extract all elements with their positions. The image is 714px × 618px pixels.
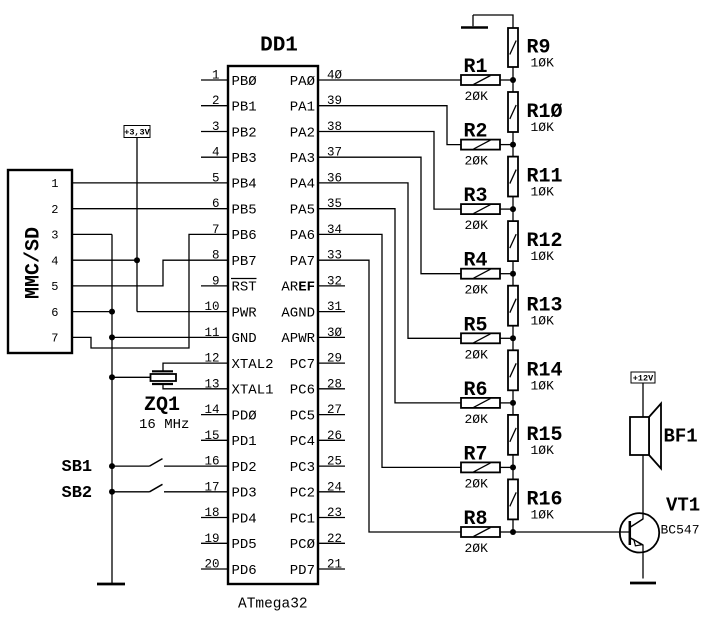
pin 2 stub <box>201 105 228 107</box>
speaker BF1 label <box>664 426 698 448</box>
wire ladder segment 5 <box>512 326 514 351</box>
switch SB2 blade <box>150 484 163 492</box>
svg-text:AGND: AGND <box>281 305 315 321</box>
resistor R5 label <box>464 314 488 337</box>
wire PA3 to R4 <box>318 157 461 274</box>
pin 32 label <box>281 280 315 296</box>
wire +3.3V vertical <box>136 138 138 312</box>
pin 28 stub <box>318 388 345 390</box>
svg-text:13: 13 <box>204 377 219 391</box>
wire GND pin11 to ground rail <box>112 336 228 338</box>
pin 18 label PD4 <box>232 511 257 527</box>
wire MMC6 to ground rail <box>72 311 112 313</box>
transistor VT1 emitter arrow <box>634 540 642 546</box>
wire ladder segment 3 <box>512 197 514 222</box>
svg-text:1ØK: 1ØK <box>531 249 555 264</box>
wire crystal case to ground <box>112 376 151 378</box>
pin 29 number <box>327 352 342 366</box>
pin 7 number <box>212 223 220 237</box>
svg-text:PDØ: PDØ <box>232 408 257 424</box>
svg-text:PA6: PA6 <box>290 228 315 244</box>
svg-text:VT1: VT1 <box>666 495 700 517</box>
wire PA4 to R5 <box>318 183 461 338</box>
resistor R11 body <box>508 157 518 197</box>
svg-text:PA3: PA3 <box>290 151 315 167</box>
svg-text:+12V: +12V <box>633 374 654 384</box>
svg-text:19: 19 <box>204 532 219 546</box>
wire PA0 to R1 <box>318 79 461 81</box>
svg-text:R6: R6 <box>464 379 488 402</box>
switch SB2 label <box>62 484 93 503</box>
svg-text:PC5: PC5 <box>290 408 315 424</box>
svg-text:3: 3 <box>212 120 220 134</box>
pin 15 number <box>204 429 219 443</box>
pin 30 label <box>281 331 315 347</box>
svg-text:1ØK: 1ØK <box>531 378 555 393</box>
svg-text:R4: R4 <box>464 250 488 273</box>
pin 31 label <box>281 305 315 321</box>
svg-text:31: 31 <box>327 300 342 314</box>
resistor R12 slash <box>510 234 516 248</box>
pin 22 number <box>327 532 342 546</box>
svg-text:BF1: BF1 <box>664 426 698 448</box>
svg-text:3: 3 <box>51 229 58 243</box>
pin 9 number <box>212 274 220 288</box>
svg-text:PC2: PC2 <box>290 486 315 502</box>
wire R1 to ladder <box>500 79 513 81</box>
svg-text:20: 20 <box>204 558 219 572</box>
wire +12V to BF1 <box>642 383 644 417</box>
resistor R8 body <box>461 527 500 537</box>
connector X1 pin 5 number <box>51 280 58 294</box>
pin 16 label PD2 <box>232 460 257 476</box>
pin 33 label <box>290 254 315 270</box>
junction MMC6/ground <box>109 309 115 315</box>
svg-text:16 MHz: 16 MHz <box>139 417 189 433</box>
resistor R10 label <box>527 101 563 124</box>
wire ground rail vertical <box>111 234 113 584</box>
transistor VT1 base bar <box>629 521 632 545</box>
pin 22 label <box>290 537 315 553</box>
pin 16 number <box>204 455 219 469</box>
pin 29 stub <box>318 362 345 364</box>
pin 25 stub <box>318 465 345 467</box>
wire +3.3V to PWR pin10 <box>137 311 228 313</box>
svg-text:PD6: PD6 <box>232 563 257 579</box>
svg-text:GND: GND <box>232 331 257 347</box>
resistor R3 value 20K <box>465 218 489 233</box>
resistor R8 slash <box>474 528 491 537</box>
resistor R1 value 20K <box>465 89 489 104</box>
svg-text:PB5: PB5 <box>232 203 257 219</box>
pin 37 number <box>327 146 342 160</box>
pin 3 number <box>212 120 220 134</box>
pin 4 stub <box>201 156 228 158</box>
svg-text:PD4: PD4 <box>232 511 257 527</box>
svg-text:1ØK: 1ØK <box>531 443 555 458</box>
pin 5 label PB4 <box>232 177 257 193</box>
resistor R12 value 10K <box>531 249 555 264</box>
resistor R9 body <box>508 28 518 67</box>
pin 1 stub <box>201 79 228 81</box>
pin 24 stub <box>318 491 345 493</box>
wire ladder segment 6 <box>512 390 514 415</box>
svg-text:AREF: AREF <box>281 280 315 296</box>
pin 18 number <box>204 506 219 520</box>
resistor R3 body <box>461 204 500 214</box>
junction node 1 <box>510 77 516 83</box>
svg-text:R7: R7 <box>464 443 488 466</box>
resistor R16 value 10K <box>531 507 555 522</box>
svg-text:PA5: PA5 <box>290 203 315 219</box>
svg-text:23: 23 <box>327 506 342 520</box>
pin 11 label GND <box>232 331 257 347</box>
wire MMC1 to PB4 <box>72 182 228 184</box>
pin 9 stub <box>201 285 228 287</box>
svg-text:R1: R1 <box>464 56 488 79</box>
resistor R9 slash <box>510 41 516 55</box>
wire PA2 to R3 <box>318 132 461 210</box>
svg-text:26: 26 <box>327 429 342 443</box>
svg-text:2ØK: 2ØK <box>465 89 489 104</box>
wire VT1 collector to BF1 <box>642 455 644 519</box>
svg-text:3Ø: 3Ø <box>327 326 343 340</box>
svg-text:5: 5 <box>212 171 220 185</box>
wire PA5 to R6 <box>318 209 461 403</box>
resistor R2 slash <box>474 140 491 149</box>
junction node 3 <box>510 206 516 212</box>
wire MMC7 to PB6 <box>72 234 228 348</box>
pin 5 number <box>212 171 220 185</box>
pin 40 number <box>327 69 343 83</box>
svg-text:R2: R2 <box>464 121 488 144</box>
svg-text:28: 28 <box>327 377 342 391</box>
pin 14 stub <box>201 414 228 416</box>
svg-text:6: 6 <box>212 197 220 211</box>
svg-text:1ØK: 1ØK <box>531 314 555 329</box>
svg-text:27: 27 <box>327 403 342 417</box>
pin 28 label <box>290 383 315 399</box>
wire PA6 to R7 <box>318 234 461 467</box>
resistor R15 body <box>508 415 518 455</box>
svg-text:11: 11 <box>204 326 219 340</box>
svg-text:2ØK: 2ØK <box>465 283 489 298</box>
resistor R10 value 10K <box>531 120 555 135</box>
pin 32 stub <box>318 285 345 287</box>
svg-text:14: 14 <box>204 403 219 417</box>
svg-text:15: 15 <box>204 429 219 443</box>
svg-text:PB6: PB6 <box>232 228 257 244</box>
junction node 4 <box>510 271 516 277</box>
svg-text:29: 29 <box>327 352 342 366</box>
svg-text:PD5: PD5 <box>232 537 257 553</box>
resistor R7 slash <box>474 463 491 472</box>
speaker BF1 cone <box>649 404 661 469</box>
junction SB2 ground <box>109 489 115 495</box>
pin 1 label PB&#216; <box>232 74 257 90</box>
svg-text:PC3: PC3 <box>290 460 315 476</box>
wire ladder segment 7 <box>512 455 514 480</box>
svg-text:1ØK: 1ØK <box>531 56 555 71</box>
pin 21 number <box>327 558 342 572</box>
pin 26 label <box>290 434 315 450</box>
wire MMC4 to +3.3V rail <box>72 259 137 261</box>
resistor R7 label <box>464 443 488 466</box>
svg-text:1ØK: 1ØK <box>531 185 555 200</box>
pin 30 stub <box>318 336 345 338</box>
svg-text:PC7: PC7 <box>290 357 315 373</box>
pin 27 stub <box>318 414 345 416</box>
resistor R2 label <box>464 121 488 144</box>
svg-text:1: 1 <box>51 177 58 191</box>
wire ladder segment 2 <box>512 132 514 157</box>
transistor VT1 collector <box>630 519 643 528</box>
resistor R4 value 20K <box>465 283 489 298</box>
IC DD1 designator <box>260 35 298 58</box>
pin 8 label PB7 <box>232 254 257 270</box>
pin 19 number <box>204 532 219 546</box>
pin 9 label RST <box>232 280 257 296</box>
svg-text:PA4: PA4 <box>290 177 315 193</box>
svg-text:22: 22 <box>327 532 342 546</box>
pin 36 label <box>290 177 315 193</box>
svg-text:ATmega32: ATmega32 <box>238 597 308 613</box>
resistor R11 label <box>527 166 563 189</box>
svg-text:18: 18 <box>204 506 219 520</box>
pin 31 number <box>327 300 342 314</box>
svg-text:PAØ: PAØ <box>290 74 315 90</box>
svg-text:MMC/SD: MMC/SD <box>23 227 46 299</box>
pin 24 number <box>327 480 342 494</box>
svg-text:17: 17 <box>204 480 219 494</box>
resistor R14 value 10K <box>531 378 555 393</box>
resistor R11 value 10K <box>531 185 555 200</box>
wire R4 to ladder <box>500 273 513 275</box>
resistor R4 slash <box>474 269 491 278</box>
wire SB1 to PD2 <box>164 465 228 467</box>
svg-text:1ØK: 1ØK <box>531 507 555 522</box>
resistor R16 label <box>527 488 563 511</box>
resistor R8 label <box>464 508 488 531</box>
svg-text:PB7: PB7 <box>232 254 257 270</box>
svg-text:2ØK: 2ØK <box>465 347 489 362</box>
svg-text:R5: R5 <box>464 314 488 337</box>
resistor R15 label <box>527 424 563 447</box>
pin 23 stub <box>318 517 345 519</box>
wire VT1 emitter to ground <box>642 545 644 579</box>
supply +12V label <box>633 374 654 384</box>
svg-text:+3,3V: +3,3V <box>124 128 150 138</box>
svg-text:2ØK: 2ØK <box>465 218 489 233</box>
svg-text:4: 4 <box>51 254 58 268</box>
svg-text:PA2: PA2 <box>290 125 315 141</box>
resistor R13 value 10K <box>531 314 555 329</box>
svg-text:APWR: APWR <box>281 331 315 347</box>
resistor R6 slash <box>474 398 491 407</box>
pin 15 label PD1 <box>232 434 257 450</box>
wire R2 to ladder <box>500 144 513 146</box>
pin 39 number <box>327 94 342 108</box>
svg-text:PD7: PD7 <box>290 563 315 579</box>
ground symbol right <box>630 582 656 585</box>
pin 20 number <box>204 558 219 572</box>
pin 23 number <box>327 506 342 520</box>
pin 34 number <box>327 223 342 237</box>
pin 14 label PD&#216; <box>232 408 257 424</box>
svg-text:2: 2 <box>51 203 58 217</box>
pin 10 label PWR <box>232 305 258 321</box>
svg-text:PD2: PD2 <box>232 460 257 476</box>
resistor R1 body <box>461 75 500 85</box>
pin 35 number <box>327 197 342 211</box>
resistor R11 slash <box>510 170 516 184</box>
resistor R3 slash <box>474 205 491 214</box>
pin 30 number <box>327 326 343 340</box>
crystal ZQ1 value 16 MHz <box>139 417 189 433</box>
svg-text:RST: RST <box>232 280 257 296</box>
pin 19 label PD5 <box>232 537 257 553</box>
resistor R16 slash <box>510 492 516 506</box>
resistor R3 label <box>464 185 488 208</box>
wire SB1 left <box>112 465 150 467</box>
junction GND/ground rail <box>109 334 115 340</box>
resistor R5 slash <box>474 334 491 343</box>
resistor R13 body <box>508 286 518 326</box>
pin 38 number <box>327 120 342 134</box>
pin 1 number <box>212 69 220 83</box>
resistor R10 slash <box>510 105 516 119</box>
resistor R13 label <box>527 295 563 318</box>
pin 20 label PD6 <box>232 563 257 579</box>
svg-text:7: 7 <box>51 332 58 346</box>
resistor R2 body <box>461 140 500 150</box>
resistor R4 body <box>461 269 500 279</box>
svg-text:2ØK: 2ØK <box>465 412 489 427</box>
svg-text:XTAL1: XTAL1 <box>232 383 274 399</box>
svg-text:2ØK: 2ØK <box>465 154 489 169</box>
junction crystal ground <box>109 374 115 380</box>
pin 6 number <box>212 197 220 211</box>
svg-text:SB1: SB1 <box>62 458 93 477</box>
resistor R2 value 20K <box>465 154 489 169</box>
resistor R1 slash <box>474 76 491 85</box>
svg-text:PB4: PB4 <box>232 177 257 193</box>
supply +3.3V box <box>124 126 150 138</box>
wire R5 to ladder <box>500 337 513 339</box>
junction MMC4/+3.3V <box>134 257 140 263</box>
resistor R7 body <box>461 462 500 472</box>
pin 35 label <box>290 203 315 219</box>
pin 21 label <box>290 563 315 579</box>
pin 12 number <box>204 352 219 366</box>
svg-text:PC4: PC4 <box>290 434 315 450</box>
pin 3 label PB2 <box>232 125 257 141</box>
svg-text:PD3: PD3 <box>232 486 257 502</box>
pin 2 label PB1 <box>232 100 257 116</box>
svg-text:1: 1 <box>212 69 220 83</box>
pin 14 number <box>204 403 219 417</box>
pin 40 label <box>290 74 315 90</box>
svg-text:R8: R8 <box>464 508 488 531</box>
IC DD1 body <box>228 66 318 584</box>
junction node 5 <box>510 335 516 341</box>
svg-text:9: 9 <box>212 274 220 288</box>
pin 34 label <box>290 228 315 244</box>
connector X1 MMC/SD box <box>8 170 72 353</box>
switch SB1 blade <box>150 459 163 467</box>
svg-text:PB1: PB1 <box>232 100 257 116</box>
pin 27 label <box>290 408 315 424</box>
pin 2 number <box>212 94 220 108</box>
connector X1 label MMC/SD <box>23 227 46 299</box>
wire R7 to ladder <box>500 466 513 468</box>
svg-text:PB3: PB3 <box>232 151 257 167</box>
pin 26 number <box>327 429 342 443</box>
connector X1 pin 3 number <box>51 229 58 243</box>
wire R8 to ladder <box>500 531 513 533</box>
wire ladder segment 4 <box>512 261 514 286</box>
svg-text:24: 24 <box>327 480 342 494</box>
pin 10 number <box>204 300 219 314</box>
junction node 6 <box>510 400 516 406</box>
connector X1 pin 6 number <box>51 306 58 320</box>
wire SB2 left <box>112 491 150 493</box>
pin 29 label <box>290 357 315 373</box>
resistor R8 value 20K <box>465 541 489 556</box>
svg-text:4: 4 <box>212 146 220 160</box>
resistor R6 label <box>464 379 488 402</box>
ground symbol left <box>97 583 125 586</box>
transistor VT1 label <box>666 495 700 517</box>
pin 6 label PB5 <box>232 203 257 219</box>
resistor R12 label <box>527 230 563 253</box>
svg-text:PC6: PC6 <box>290 383 315 399</box>
svg-text:PA7: PA7 <box>290 254 315 270</box>
svg-text:BC547: BC547 <box>661 523 700 538</box>
pin 4 number <box>212 146 220 160</box>
wire PA1 to R2 <box>318 106 461 145</box>
wire MMC3 to ground rail <box>72 233 112 235</box>
pin 27 number <box>327 403 342 417</box>
supply +12V box <box>631 372 655 383</box>
svg-text:SB2: SB2 <box>62 484 93 503</box>
pin 3 stub <box>201 131 228 133</box>
resistor R14 slash <box>510 363 516 377</box>
crystal ZQ1 body <box>151 374 177 381</box>
resistor R6 body <box>461 398 500 408</box>
pin 25 label <box>290 460 315 476</box>
transistor VT1 emitter <box>631 538 644 545</box>
wire R3 to ladder <box>500 208 513 210</box>
pin 20 stub <box>201 568 228 570</box>
resistor R15 value 10K <box>531 443 555 458</box>
pin 4 label PB3 <box>232 151 257 167</box>
pin 32 number <box>327 274 342 288</box>
resistor R1 label <box>464 56 488 79</box>
wire MMC5 to PB7 <box>72 260 228 286</box>
svg-text:6: 6 <box>51 306 58 320</box>
transistor VT1 part BC547 <box>661 523 700 538</box>
pin 38 label <box>290 125 315 141</box>
svg-text:32: 32 <box>327 274 342 288</box>
pin 15 stub <box>201 439 228 441</box>
svg-text:5: 5 <box>51 280 58 294</box>
svg-text:R3: R3 <box>464 185 488 208</box>
junction node 2 <box>510 142 516 148</box>
pin 24 label <box>290 486 315 502</box>
wire ladder segment 1 <box>512 67 514 92</box>
pin 31 stub <box>318 311 345 313</box>
